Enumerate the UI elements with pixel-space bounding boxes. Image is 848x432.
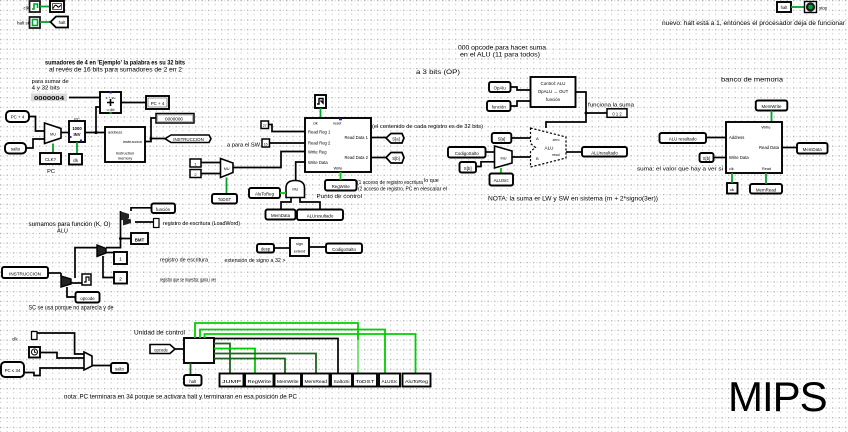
svg-text:ALU resultado: ALU resultado [669,137,697,142]
svg-text:instruccion: instruccion [123,139,142,144]
display block 1 [114,252,127,264]
goto tag MemData [797,143,828,154]
wire cu top green 1 to ToDST tag [195,323,358,374]
svg-text:SaltoSi: SaltoSi [334,379,350,385]
from tag MemRead [750,184,782,194]
block Control ALU [531,77,576,107]
svg-text:A: A [536,136,539,141]
svg-text:2: 2 [119,276,122,281]
svg-text:salto: salto [11,146,21,151]
svg-text:Read Data 2: Read Data 2 [344,155,368,160]
from tag MemWrite [756,101,788,111]
svg-text:clk: clk [73,158,79,163]
wire PC+4 to mux [29,117,45,132]
svg-text:a para el SW: a para el SW [227,142,261,148]
svg-text:Read Data 1: Read Data 1 [344,135,368,140]
wire salto to mux [26,139,45,148]
svg-text:escalar el: escalar el [424,187,447,193]
clock CLK? block [40,153,61,164]
svg-text:halt: halt [189,379,197,384]
svg-text:al revés de 16 bits para sumad: al revés de 16 bits para sumadores de 2 … [49,66,183,73]
svg-text:0 1 2: 0 1 2 [612,111,622,116]
mux alusrc [495,146,513,168]
svg-text:MemWrite: MemWrite [277,379,299,385]
inport PC <= 34 [1,362,24,377]
svg-text:ALU: ALU [545,146,554,151]
demux block [97,245,106,257]
svg-text:RegWrite: RegWrite [248,379,272,385]
constant 4 (selected gray) [31,94,67,102]
wire cu bright green to RegWrite [214,349,255,375]
svg-text:banco de memoria: banco de memoria [721,77,784,84]
wire clk to pcsrc mux [40,353,84,359]
wire clk to data memory (green) [731,173,733,183]
wire alusrc select (green) [500,168,502,174]
wire desp to sign extend [274,247,290,249]
source block 2 for write-reg mux [190,170,201,178]
wire splitter down to opcode [67,287,76,297]
goto tag MemRead row [302,374,330,387]
svg-text:para sumar de: para sumar de [32,79,69,85]
wire RegWrite to register file (green) [340,172,342,180]
wire control ALU to ALU op input [546,92,586,128]
scope block [50,1,64,12]
wire CodigoSalto to alusrc mux [486,151,495,153]
wire constant to adder [69,97,100,99]
svg-text:OpALU → OUT: OpALU → OUT [538,89,569,94]
svg-text:clk: clk [730,188,735,192]
node from halt [777,2,791,12]
svg-text:clk: clk [12,337,18,342]
svg-text:zero: zero [553,138,560,142]
wire read data 2 to S[b] [371,157,386,159]
wire demux out1 [106,252,114,254]
from tag S[b] alu [460,162,477,173]
svg-text:PC + 4: PC + 4 [151,101,165,106]
goto tag S[b] [386,153,404,164]
goto tag RegWrite row [245,374,274,387]
wire cu dark green to MemWrite [214,359,285,375]
svg-text:halt: halt [781,5,789,10]
svg-text:suma: el valor que hay a ver s: suma: el valor que hay a ver si [637,167,723,173]
splitter cluster dark glyphs [121,212,131,226]
wire splitter up to demux [75,248,97,278]
wire opcode to control unit [175,348,184,350]
from tag opcode cu [150,345,175,354]
svg-text:BMT: BMT [135,237,145,242]
wire rs to Read Reg 1 [269,125,306,132]
goto tag S[a] [386,134,404,144]
wire cu top green 3 to AluToReg tag [205,334,416,374]
goto tag halt cu [184,375,202,386]
wire AluToReg select (green) [280,192,286,194]
register file block [305,118,371,172]
wire ALUresultado to mux [300,198,320,210]
svg-text:ToDST: ToDST [356,379,375,385]
svg-text:Write Data: Write Data [729,155,749,160]
svg-text:S[a]: S[a] [498,137,506,142]
svg-text:0000004: 0000004 [34,96,64,102]
wire halt to goto tag [40,21,50,23]
wire rt to Read Reg 2 [270,142,306,144]
svg-text:en el ALU (11 para todos): en el ALU (11 para todos) [460,53,540,59]
svg-text:ToDST: ToDST [218,197,232,202]
svg-text:SC se usa porque no aparecía y: SC se usa porque no aparecía y de [29,306,115,312]
svg-text:(2 acceso de registro, PC en e: (2 acceso de registro, PC en el [358,187,424,193]
wire IM out junction [145,118,156,142]
svg-text:ALUSrc: ALUSrc [494,178,510,183]
svg-text:MU: MU [50,133,56,137]
from tag ALU resultado mem [660,133,707,143]
small source block A [32,332,38,340]
svg-text:16: 16 [264,142,268,146]
mux write-data (dome) [286,181,305,198]
small sel block [154,219,160,228]
svg-text:opcode: opcode [80,296,95,301]
svg-text:MIPS: MIPS [728,373,827,420]
svg-text:Read Data: Read Data [759,145,780,150]
svg-text:registro de escritura (LoadWor: registro de escritura (LoadWord) [163,221,240,227]
display PC + 4 [146,96,169,109]
ALU block (dashed) [531,128,567,167]
wire sign extend to CodigoSalto [309,246,326,248]
mux PC source [45,123,62,144]
wire read data 1 to S[a] [371,137,386,139]
goto tag CodigoSalto [326,244,362,254]
wire MemWrite to data memory (green) [771,111,773,123]
from tag RegWrite [325,180,357,191]
selector block rs [261,121,269,129]
svg-text:Write Data: Write Data [308,160,328,165]
svg-text:Unidad de control: Unidad de control [134,330,185,337]
wire PC<=34 to pcsrc mux (jog) [24,368,84,376]
svg-text:JUMP: JUMP [222,379,241,385]
wire MemRead to data memory (green) [765,173,767,184]
display 0 1 2 [607,109,627,118]
svg-text:Write Reg: Write Reg [308,149,327,154]
wire PC register clock (green) [76,142,78,154]
svg-text:MemData: MemData [271,213,291,218]
wire MemData to mux [281,198,291,210]
goto tag funcion [152,204,176,214]
wire adder to PC+4 display [121,102,146,104]
wire halt to stop [791,6,806,8]
wire write-data mux up to register file [296,162,305,181]
from tag INSTRUCCION [2,267,48,278]
svg-text:extend: extend [294,250,305,254]
svg-text:27: 27 [263,124,267,128]
svg-text:B: B [536,156,539,161]
svg-text:AluToReg: AluToReg [255,192,275,197]
svg-text:stop: stop [819,6,828,11]
wires into write-reg mux [201,162,221,164]
wire stub to BMT [121,238,132,240]
goto tag INSTRUCCION [165,135,211,143]
wire ALU resultado to address [706,137,726,139]
svg-text:registro que se muestra; gana: registro que se muestra; gana i ver [160,278,216,284]
svg-text:u dbl: u dbl [107,108,115,112]
svg-text:PC: PC [47,169,55,175]
wire funcion to control ALU [511,101,531,106]
svg-text:función: función [492,105,507,110]
wire OpAlu to control ALU [511,87,531,90]
wire mux select to ToDST (green) [226,178,228,195]
svg-text:salto: salto [115,367,125,372]
from tag ToDST [212,194,237,204]
svg-text:Address: Address [729,135,744,140]
instruction memory block [105,127,145,162]
svg-text:PC + 4: PC + 4 [11,115,25,120]
svg-text:Write: Write [761,125,771,130]
svg-text:función: función [156,207,171,212]
svg-text:clk: clk [313,122,318,126]
svg-text:(el contenido de cada registro: (el contenido de cada registro es de 32 … [372,124,483,130]
svg-text:Punto de control: Punto de control [317,194,363,200]
wire demux vertical to top cluster [106,211,121,248]
svg-text:CLK?: CLK? [45,157,57,162]
stop simulation block [805,2,817,13]
goto tag ToDST row [353,374,377,387]
svg-text:ALUresultado: ALUresultado [591,150,618,155]
svg-text:ALUSrc: ALUSrc [382,379,399,385]
svg-text:memory: memory [118,156,132,161]
goto tag JUMP row [220,374,244,387]
wire cu bottom to halt tag [190,363,192,375]
svg-text:función: función [546,97,561,102]
from tag MemData [266,210,296,220]
svg-text:RegWrite: RegWrite [332,184,351,189]
svg-text:registro de escritura: registro de escritura [160,258,209,264]
goto tag AluToReg row [403,374,431,387]
svg-text:Control: ALU: Control: ALU [541,81,566,86]
wire A to pcsrc mux [37,333,84,354]
from tag OpAlu [489,82,511,92]
svg-text:address: address [108,130,122,135]
svg-text:nuevo: halt está a 1, entonces: nuevo: halt está a 1, entonces el proces… [662,20,846,27]
svg-text:ALUresultado: ALUresultado [307,213,334,218]
svg-text:sumamos para función (K, O): sumamos para función (K, O) [29,222,111,228]
from tag ALUSrc [490,174,514,186]
from tag S[b] mem [700,153,714,162]
svg-text:desp: desp [261,247,271,252]
wire S[b] to write data [714,157,727,159]
wire PC out to instruction memory with branch up to adder [85,132,105,134]
svg-text:CodigoSalto: CodigoSalto [332,247,356,252]
mux pcsrc small [84,352,92,370]
svg-text:resul: resul [552,153,560,157]
svg-text:OpAlu: OpAlu [494,86,507,91]
block BMT [131,233,148,244]
from tag CodigoSalto alu [448,147,486,158]
source block 1 for write-reg mux [190,159,201,167]
svg-text:0000000: 0000000 [165,117,183,122]
svg-text:MemWrite: MemWrite [762,104,782,109]
wire ALU out to ALUresultado [566,151,582,153]
svg-text:halt st: halt st [17,21,30,26]
wire mux clock (green) [52,144,54,154]
wire pcsrc mux to salto [92,365,111,367]
inport salto [5,143,26,154]
clock block mem [727,183,738,194]
wire mux to ALU B [512,156,531,158]
wire branch to display 012 [586,112,607,114]
svg-text:INSTRUCCION: INSTRUCCION [173,137,204,142]
svg-text:INV: INV [74,132,81,137]
clock source for register file [315,95,326,108]
svg-text:(1 acceso de registro escritur: (1 acceso de registro escritura [357,180,423,186]
svg-text:extensión de signo a 32 >: extensión de signo a 32 > [225,258,286,264]
svg-text:opcode: opcode [154,347,168,352]
constant halt source (green block) [30,17,41,28]
svg-text:1000: 1000 [72,126,82,131]
from tag desp [257,244,274,253]
from tag funcion2 [487,101,511,111]
display instruction word [156,114,194,124]
svg-text:INSTRUCCION: INSTRUCCION [9,271,41,276]
svg-text:S[b]: S[b] [703,156,710,161]
goto tag salto [111,363,128,373]
control unit block [184,338,214,363]
goto tag halt [51,17,69,28]
svg-text:Read: Read [762,167,771,171]
mux write-reg [221,159,234,178]
sign extend block [290,238,309,256]
svg-text:Read Reg 1: Read Reg 1 [308,129,331,134]
svg-text:S[b]: S[b] [392,156,399,161]
svg-text:a 3 bits (OP): a 3 bits (OP) [416,70,460,76]
wire cluster to funcion tag [131,208,152,211]
svg-text:4 y 32 bits: 4 y 32 bits [32,86,60,92]
svg-text:NOTA: la suma er LW y SW en si: NOTA: la suma er LW y SW en sistema (m +… [488,196,658,203]
svg-text:MemRead: MemRead [305,379,328,385]
wire splitter to selector icon block [71,282,82,284]
wire S[a] to ALU A [511,137,530,139]
svg-text:clk: clk [729,167,734,171]
wire demux out2 [103,256,114,278]
wire S[b] to alusrc mux [476,162,495,167]
register PC [69,117,85,143]
clock block pcsrc [29,347,40,358]
clock clk block [69,154,82,165]
display block 2 [114,272,127,284]
goto tag opcode [76,292,100,303]
svg-text:MU: MU [224,167,230,171]
wire read data to MemData [782,147,797,149]
svg-text:1: 1 [119,257,122,262]
splitter mux lower [61,276,71,287]
svg-text:S[a]: S[a] [392,137,399,142]
svg-text:nota: PC terminara en 34 porqu: nota: PC terminara en 34 porque se activ… [64,394,297,401]
svg-text:CodigoSalto: CodigoSalto [455,151,479,156]
svg-text:lo que: lo que [424,178,439,184]
goto tag MemWrite row [275,374,302,387]
svg-text:AluToReg: AluToReg [405,379,428,385]
from tag AluToReg [249,188,280,198]
svg-text:ALU: ALU [57,229,68,235]
wire cu top green 2 to ALUSrc tag [200,330,385,375]
goto tag ALUSrc row [379,374,400,387]
inport PC + 4 [6,111,29,122]
svg-text:Read Reg 2: Read Reg 2 [308,140,331,145]
wire cu dark green to MemRead [214,354,316,375]
from tag S[a] alu [492,133,512,143]
wire clock to register file (green) [320,108,322,118]
svg-text:sign: sign [296,242,303,246]
svg-text:MemRead: MemRead [756,187,777,192]
svg-text:MU: MU [292,188,298,192]
svg-text:Write: Write [334,167,343,171]
from tag ALUresultado [297,210,343,221]
wire mux to PC register [61,132,69,134]
wire cu black to SaltoSi tag [214,339,338,375]
svg-text:reset: reset [333,122,342,126]
svg-text:funciona la suma: funciona la suma [588,103,635,109]
wire cluster to sel block [135,221,154,223]
adder block [100,92,121,114]
svg-text:halt: halt [59,20,67,25]
data memory block [726,122,782,173]
svg-text:MU: MU [501,157,507,161]
wire INSTRUCCION to splitter [48,272,61,274]
selector block rt [262,139,270,147]
goto tag ALUresultado2 [582,147,627,157]
constant clk source (green block) [30,1,41,12]
svg-text:PC ≤ 34: PC ≤ 34 [5,368,21,373]
svg-text:S[b]: S[b] [464,166,472,171]
wire clk to scope [40,6,50,8]
wire write-reg mux to register file [233,152,305,168]
goto tag SaltoSi row [331,374,352,387]
wire cu dark green to JUMP [214,344,230,375]
svg-text:MemData: MemData [803,147,823,152]
svg-text:000 opcode para hacer suma: 000 opcode para hacer suma [458,46,547,52]
selector icon block [82,274,91,285]
